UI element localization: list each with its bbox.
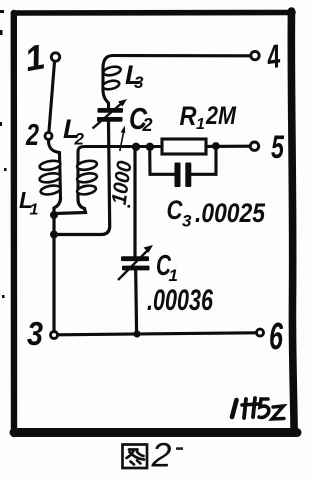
svg-text:1: 1 [169,266,178,285]
svg-text:3: 3 [27,315,43,352]
svg-text:3: 3 [134,73,144,92]
svg-text:2: 2 [25,117,39,152]
svg-text:R: R [180,101,197,131]
svg-text:C: C [167,195,183,225]
svg-text:.00036: .00036 [147,284,213,317]
svg-text:2M: 2M [205,102,237,130]
svg-text:2: 2 [150,437,171,475]
svg-text:.00025: .00025 [195,198,266,228]
svg-text:2: 2 [74,130,85,149]
svg-text:6: 6 [269,316,284,358]
svg-text:1: 1 [30,202,39,219]
svg-text:3: 3 [182,212,192,231]
svg-text:5: 5 [271,129,285,165]
svg-text:1: 1 [196,116,205,133]
svg-text:2: 2 [142,115,153,135]
